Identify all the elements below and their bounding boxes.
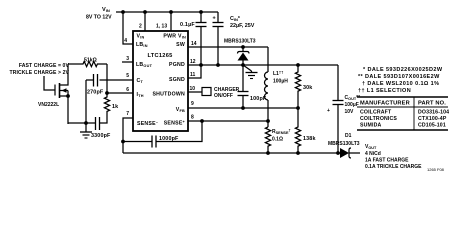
- node junction SENSE+/RSENSE: [266, 119, 270, 123]
- node junction PGND/diode: [241, 63, 245, 67]
- capacitor 3300pF: [68, 117, 111, 139]
- svg-text:4: 4: [124, 38, 127, 44]
- svg-text:4 NiCd: 4 NiCd: [365, 151, 381, 157]
- capacitor 100pF: [238, 65, 267, 108]
- wire VFB line: [188, 107, 298, 109]
- node junction gnd/3300pF: [84, 121, 88, 125]
- wire 51k to ITH: [106, 64, 108, 93]
- pin numbers: [124, 24, 197, 121]
- wire pin2 stub: [144, 12, 146, 31]
- wire SENSE+ line: [188, 120, 268, 122]
- svg-text:CIN*: CIN*: [230, 16, 241, 22]
- svg-text:12: 12: [190, 59, 196, 65]
- node junction SENSE+/1000pF: [200, 119, 204, 123]
- svg-text:51kΩ: 51kΩ: [84, 58, 97, 64]
- svg-text:100µH: 100µH: [273, 79, 288, 85]
- node junction VIN/0.1uF: [199, 10, 203, 14]
- svg-text:VIN: VIN: [137, 34, 145, 40]
- svg-text:SHUTDOWN: SHUTDOWN: [152, 92, 185, 98]
- svg-text:0.1Ω: 0.1Ω: [272, 137, 283, 143]
- svg-text:3: 3: [126, 56, 129, 62]
- svg-text:D1: D1: [345, 133, 352, 139]
- svg-text:† DALE WSL2010 0.1Ω 1%: † DALE WSL2010 0.1Ω 1%: [362, 81, 439, 87]
- svg-text:138k: 138k: [303, 136, 316, 142]
- inductor L1 100uH: [265, 70, 289, 101]
- svg-text:0.1µF: 0.1µF: [180, 22, 195, 28]
- diode D catch MBRS130LT3: [224, 39, 256, 66]
- svg-text:1, 13: 1, 13: [156, 24, 167, 30]
- node junction rail/RSENSE: [266, 151, 270, 155]
- svg-text:LBOUT: LBOUT: [136, 62, 153, 68]
- capacitor CIN 22uF 25V: [213, 12, 255, 65]
- svg-text:* DALE 593D226X0025D2W: * DALE 593D226X0025D2W: [363, 67, 443, 73]
- svg-text:SENSE+: SENSE+: [164, 120, 186, 127]
- wire COUT drop: [337, 65, 339, 101]
- capacitor 270pF: [86, 74, 104, 123]
- resistor 51k: [68, 58, 107, 67]
- wire CT line: [100, 79, 134, 81]
- svg-text:LTC1265: LTC1265: [148, 53, 173, 59]
- svg-text:MANUFACTURER: MANUFACTURER: [360, 101, 410, 107]
- svg-text:SENSE–: SENSE–: [137, 121, 158, 128]
- node junction PGND/30k: [296, 63, 300, 67]
- node junction PGND/0.1uF/SGND: [199, 63, 203, 67]
- svg-text:30k: 30k: [303, 85, 312, 91]
- svg-text:100µF: 100µF: [345, 102, 359, 108]
- node FAST/TRICKLE control label: [10, 63, 70, 76]
- node junction VFB/100pF: [241, 106, 245, 110]
- svg-text:COILTRONICS: COILTRONICS: [360, 116, 397, 122]
- svg-text:COUT**: COUT**: [345, 95, 361, 101]
- op-amp U1 LTC1265 box: [133, 31, 188, 131]
- svg-text:** DALE 593D107X0016E2W: ** DALE 593D107X0016E2W: [358, 74, 440, 80]
- node junction rail/138k: [296, 151, 300, 155]
- node junction SW/diode: [241, 45, 245, 49]
- wire SENSE- run: [123, 118, 133, 153]
- svg-text:7: 7: [126, 111, 129, 117]
- wire SW to L1: [267, 47, 269, 72]
- svg-text:†† L1 SELECTION: †† L1 SELECTION: [358, 88, 411, 94]
- node CHARGER ON/OFF terminal: [202, 87, 240, 99]
- svg-text:1000pF: 1000pF: [159, 136, 179, 142]
- node VIN label: [86, 7, 112, 21]
- svg-text:CTX100-4P: CTX100-4P: [418, 116, 447, 122]
- svg-text:+: +: [327, 108, 330, 114]
- node junction VIN/pin2: [143, 10, 147, 14]
- svg-text:100pF: 100pF: [250, 96, 267, 102]
- node junction VIN/LBIN: [121, 10, 125, 14]
- svg-text:3300pF: 3300pF: [91, 133, 111, 139]
- svg-text:ON/OFF: ON/OFF: [214, 93, 233, 99]
- node VOUT label: [365, 144, 422, 170]
- capacitor COUT 100uF 10V: [327, 95, 360, 153]
- node junction rail/COUT: [336, 151, 340, 155]
- svg-text:1265 F08: 1265 F08: [427, 167, 445, 172]
- wire PGND line: [188, 64, 338, 66]
- svg-text:8V TO 12V: 8V TO 12V: [86, 15, 112, 21]
- svg-text:SUMIDA: SUMIDA: [360, 123, 381, 129]
- note DALE parts: [358, 67, 443, 94]
- svg-text:8: 8: [191, 115, 194, 121]
- wire output rail: [123, 152, 340, 154]
- svg-text:FAST CHARGE = 0V: FAST CHARGE = 0V: [19, 63, 70, 69]
- svg-text:VIN: VIN: [102, 7, 110, 13]
- svg-text:2: 2: [139, 24, 142, 30]
- resistor 30k: [295, 65, 312, 108]
- svg-text:14: 14: [191, 41, 197, 47]
- capacitor 1000pF: [123, 121, 202, 148]
- resistor 138k: [295, 108, 315, 153]
- capacitor 0.1uF: [180, 12, 207, 65]
- svg-text:VN2222L: VN2222L: [38, 102, 59, 108]
- node junction ITH: [105, 91, 109, 95]
- svg-text:SGND: SGND: [169, 77, 185, 83]
- svg-text:SW: SW: [176, 42, 185, 48]
- svg-text:10: 10: [190, 86, 196, 92]
- wire SHUTDOWN lead: [188, 91, 202, 93]
- wire ITH line: [107, 92, 133, 94]
- svg-text:CT: CT: [137, 78, 144, 84]
- svg-text:MBRS130LT3: MBRS130LT3: [224, 39, 256, 45]
- svg-text:MBRS130LT3: MBRS130LT3: [328, 141, 360, 147]
- svg-text:10V: 10V: [345, 109, 355, 115]
- svg-text:PWR VIN: PWR VIN: [163, 34, 186, 40]
- wire pin1,13 stub: [170, 12, 172, 31]
- node junction PGND/CIN: [216, 63, 220, 67]
- svg-text:RSENSE†: RSENSE†: [272, 129, 291, 136]
- wire LBIN riser: [123, 12, 133, 44]
- svg-text:6: 6: [126, 87, 129, 93]
- wire VIN rail: [116, 11, 218, 13]
- node L1 selection table: [357, 97, 449, 130]
- node junction VIN/pin1-13: [169, 10, 173, 14]
- transistor Q1 VN2222L: [38, 64, 70, 124]
- node junction VFB divider: [296, 106, 300, 110]
- wire L1 to RSENSE: [267, 100, 269, 127]
- ground G2: [243, 65, 258, 79]
- svg-text:CD105-101: CD105-101: [418, 123, 446, 129]
- resistor RSENSE 0.1ohm: [265, 127, 290, 153]
- svg-text:L1††: L1††: [273, 70, 283, 78]
- svg-text:PGND: PGND: [169, 62, 185, 68]
- svg-text:VFB: VFB: [176, 107, 185, 113]
- wire SW line: [188, 46, 268, 48]
- svg-text:11: 11: [190, 72, 196, 78]
- svg-text:1k: 1k: [112, 104, 118, 110]
- svg-text:COILCRAFT: COILCRAFT: [360, 110, 392, 116]
- ground G1: [80, 123, 92, 138]
- svg-text:0.1A TRICKLE CHARGE: 0.1A TRICKLE CHARGE: [365, 164, 422, 170]
- svg-text:VOUT: VOUT: [365, 144, 377, 150]
- svg-text:5: 5: [126, 73, 129, 79]
- diode D1 MBRS130LT3: [328, 133, 360, 158]
- svg-text:LBIN: LBIN: [136, 42, 148, 48]
- svg-text:1A FAST CHARGE: 1A FAST CHARGE: [365, 158, 409, 164]
- svg-text:PART NO.: PART NO.: [418, 101, 446, 107]
- svg-text:9: 9: [191, 101, 194, 107]
- wire pin3 LBOUT stub: [122, 61, 133, 63]
- wire SGND run: [188, 65, 201, 78]
- svg-text:ITH: ITH: [137, 92, 144, 98]
- wire gate lead: [44, 76, 55, 90]
- svg-text:DO3316-104: DO3316-104: [418, 110, 449, 116]
- resistor 1k: [100, 93, 119, 123]
- svg-text:TRICKLE CHARGE > 2V: TRICKLE CHARGE > 2V: [10, 70, 70, 76]
- node junction SENSE-/1000pF: [121, 140, 125, 144]
- svg-text:270pF: 270pF: [87, 90, 104, 96]
- svg-text:22µF, 25V: 22µF, 25V: [230, 23, 255, 29]
- svg-text:+: +: [213, 16, 216, 22]
